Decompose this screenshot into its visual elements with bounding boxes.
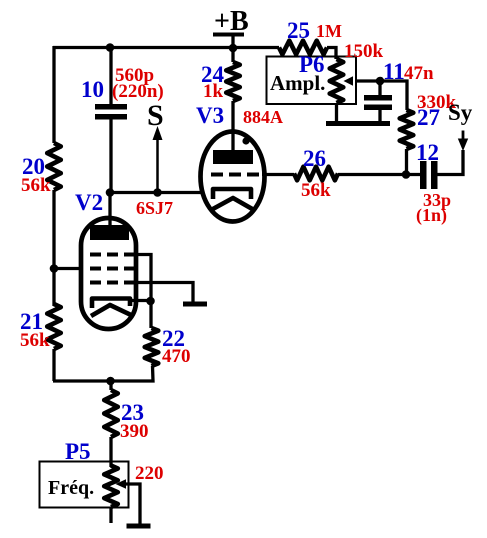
- wire V2 g1 to ground: [136, 283, 193, 303]
- ground (P5 wiper): [127, 524, 151, 529]
- tube V2 6SJ7 envelope: [75, 190, 173, 329]
- resistor 25: [279, 18, 342, 54]
- output Sy arrow and label: [448, 100, 473, 151]
- svg-text:27: 27: [417, 105, 440, 130]
- wire capacitor 10 to anode node: [109, 119, 112, 193]
- wire resistor 27 to output node: [405, 149, 408, 176]
- wire resistor 20 to node A: [52, 190, 55, 306]
- wire rail to resistor 25 right / corner down to P6: [327, 48, 336, 60]
- svg-text:25: 25: [287, 18, 310, 43]
- tube V2 anode plate: [90, 225, 129, 240]
- svg-text:150k: 150k: [344, 41, 384, 62]
- svg-text:6SJ7: 6SJ7: [136, 198, 173, 218]
- wire V2 cathode to column: [130, 299, 151, 302]
- resistor 22: [145, 326, 191, 367]
- wire resistor 26 to output node: [338, 173, 420, 176]
- node A screen junction dot: [50, 264, 59, 273]
- svg-text:P5: P5: [65, 439, 91, 464]
- node dot wiper/capacitor 11: [376, 77, 385, 86]
- node dot rail/resistor 24: [229, 44, 238, 53]
- wire V2 g3 to cathode column: [136, 255, 151, 329]
- svg-text:10: 10: [81, 77, 104, 102]
- wire left feedback branch (top rail to resistor 20): [52, 46, 55, 143]
- tube V3 gas dot: [242, 137, 249, 144]
- wire bottom rail to resistor 23: [109, 381, 112, 390]
- resistor 20: [21, 143, 61, 196]
- node dot rail/capacitor 10: [106, 43, 115, 52]
- capacitor 10: [81, 65, 164, 120]
- tube V2 grid g1 (bottom row): [90, 281, 136, 285]
- node S arrow and label: [147, 99, 164, 191]
- potentiometer P6 element: [330, 41, 384, 103]
- svg-text:(1n): (1n): [416, 205, 447, 226]
- resistor 27: [400, 92, 457, 149]
- node output junction dot: [402, 170, 411, 179]
- wire resistor 24 to V3 plate: [231, 101, 234, 152]
- resistor 26: [294, 146, 338, 201]
- wire anode node to V2 plate: [108, 193, 111, 227]
- svg-text:470: 470: [162, 346, 191, 367]
- wire capacitor 11 to bottom bus: [378, 110, 381, 124]
- svg-text:56k: 56k: [21, 175, 51, 196]
- P5 wiper arrow and wire: [116, 479, 141, 524]
- svg-text:390: 390: [120, 421, 149, 442]
- P6 wiper arrow and wire: [344, 76, 408, 110]
- tube V3 cathode: [213, 189, 251, 199]
- potentiometer P5 box Freq: [40, 439, 129, 508]
- tube V2 grid g2 (middle row): [90, 267, 136, 271]
- node S junction dot: [153, 188, 162, 197]
- resistor 24: [201, 62, 240, 102]
- svg-text:V3: V3: [196, 103, 224, 128]
- tube V2 heater: [91, 305, 131, 316]
- wire rail to resistor 24: [231, 48, 234, 62]
- svg-text:26: 26: [303, 146, 326, 171]
- wire resistor 23 to potentiometer P5: [109, 437, 112, 467]
- svg-text:Fréq.: Fréq.: [48, 477, 94, 499]
- tube V3 884A envelope: [196, 103, 283, 222]
- resistor 21: [20, 304, 61, 351]
- tube V3 anode plate: [213, 150, 253, 164]
- wire node A to V2 screen grid: [54, 267, 83, 270]
- wire anode node to V3 cathode: [110, 191, 204, 194]
- svg-text:884A: 884A: [243, 107, 283, 127]
- wire resistor 21 to bottom rail: [52, 349, 55, 381]
- node bottom rail junction dot: [106, 377, 115, 386]
- svg-text:1M: 1M: [316, 21, 342, 41]
- node cathode junction dot: [146, 297, 155, 306]
- potentiometer P5 element: [104, 463, 163, 507]
- svg-text:12: 12: [416, 140, 439, 165]
- capacitor 11: [364, 59, 434, 110]
- svg-text:56k: 56k: [20, 330, 50, 351]
- svg-text:Ampl.: Ampl.: [270, 71, 325, 95]
- ground (V2 grid): [183, 302, 207, 307]
- wire capacitor 12 to Sy output: [438, 150, 464, 175]
- power terminal +B: [213, 6, 249, 49]
- svg-text:47n: 47n: [404, 63, 434, 84]
- wire top supply rail: [53, 46, 279, 49]
- wire P6 bottom: [335, 103, 338, 124]
- tube V2 cathode: [92, 299, 130, 309]
- node anode junction dot V2: [106, 188, 115, 197]
- svg-text:+B: +B: [214, 6, 249, 37]
- svg-text:11: 11: [383, 59, 405, 84]
- tube V3 grid: [211, 173, 262, 177]
- tube V2 grid g3 (top row): [90, 253, 136, 257]
- wire rail to capacitor 10: [109, 48, 112, 106]
- capacitor 12: [416, 140, 451, 226]
- wire P5 bottom open end: [109, 507, 112, 523]
- svg-text:220: 220: [135, 463, 164, 484]
- svg-text:V2: V2: [75, 190, 103, 215]
- resistor 23: [104, 390, 148, 442]
- svg-text:56k: 56k: [301, 180, 331, 201]
- tube V3 heater: [211, 198, 254, 210]
- svg-text:S: S: [147, 99, 164, 132]
- wire V3 grid to resistor 26: [262, 173, 294, 176]
- svg-text:1k: 1k: [203, 81, 224, 102]
- wire bottom bus P6/C11: [326, 121, 390, 126]
- wire resistor 22 to bottom rail: [53, 366, 153, 381]
- svg-text:Sy: Sy: [448, 100, 473, 125]
- potentiometer P6 box Ampl: [267, 52, 357, 104]
- wire wiper node to capacitor 11: [378, 81, 381, 96]
